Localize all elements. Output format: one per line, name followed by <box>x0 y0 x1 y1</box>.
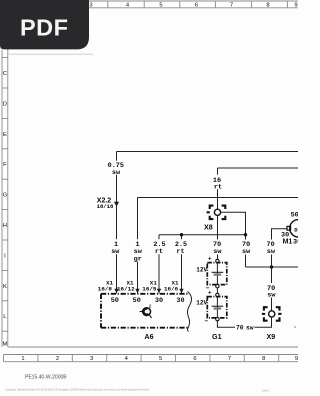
label 1 sw gr <box>133 239 144 263</box>
label X1 16/5 <box>142 280 157 293</box>
svg-text:PDF: PDF <box>20 15 69 41</box>
wire X8 right branch down to battery feed bus <box>221 212 246 267</box>
svg-text:6: 6 <box>193 356 196 362</box>
label 70 sw (ground link) <box>236 325 254 332</box>
svg-text:3: 3 <box>90 356 93 362</box>
svg-text:5: 5 <box>159 356 162 362</box>
ignition switch symbol in A6 <box>140 304 152 318</box>
svg-text:E: E <box>3 132 7 138</box>
svg-text:−: − <box>204 318 208 325</box>
wire G1 minus to X9 (left segment) <box>217 321 235 327</box>
wire 70 sw X8 to G1 plus <box>212 215 222 259</box>
svg-text:sw: sw <box>242 248 251 256</box>
svg-text:rt: rt <box>155 248 163 256</box>
label 2.5 rt (right) <box>175 239 188 256</box>
battery G1 cell 1 minus terminal <box>216 285 219 288</box>
svg-text:rt: rt <box>176 248 184 256</box>
connector arrow X1 16/5 <box>157 289 161 294</box>
wire bus 70 sw to right edge <box>246 266 299 268</box>
svg-text:X8: X8 <box>204 223 213 232</box>
svg-text:9: 9 <box>295 356 298 362</box>
svg-text:PE15.40-W-2000B: PE15.40-W-2000B <box>25 374 67 380</box>
svg-text:I: I <box>4 253 6 259</box>
label X1 16/8 <box>98 280 114 293</box>
wire rt link to feed junction <box>159 234 246 236</box>
svg-text:M1: M1 <box>283 238 293 245</box>
svg-text:G1: G1 <box>212 332 222 341</box>
svg-text:L: L <box>3 314 7 320</box>
PDF badge overlay <box>0 0 89 49</box>
battery G1 cell 1 plus terminal <box>216 259 219 262</box>
label 2.5 rt (left) <box>153 239 166 256</box>
junction dot starter branch <box>270 265 273 268</box>
svg-text:1: 1 <box>21 356 24 362</box>
svg-text:7: 7 <box>230 2 233 8</box>
svg-text:sw: sw <box>267 248 276 256</box>
svg-text:X9: X9 <box>267 332 276 341</box>
control unit A6 box (dash-dot) <box>101 294 188 328</box>
junction dot rt branch <box>180 233 183 236</box>
connector X2.2 pin 18/18 <box>97 198 120 210</box>
svg-text:M: M <box>2 342 7 348</box>
svg-text:7: 7 <box>228 356 231 362</box>
break line A6 right edge <box>187 292 191 332</box>
svg-text:G: G <box>3 193 8 199</box>
svg-text:30: 30 <box>155 297 163 305</box>
starter motor M1 (clipped at sheet edge) <box>287 220 307 237</box>
connector X8 <box>207 206 226 220</box>
svg-text:16/5: 16/5 <box>142 285 157 292</box>
svg-text:30: 30 <box>176 297 184 305</box>
svg-text:70: 70 <box>236 325 244 332</box>
wire bus sw to right edge <box>117 151 299 153</box>
wire 70 sw junction to M1 terminal 30 <box>266 229 288 267</box>
svg-text:gr: gr <box>134 256 142 264</box>
battery G1 cell 1 plates <box>212 263 224 285</box>
svg-text:8: 8 <box>266 2 269 8</box>
svg-text:18/18: 18/18 <box>97 203 114 210</box>
svg-text:sw: sw <box>112 169 121 177</box>
wire 70 sw junction down to X9 <box>266 267 277 311</box>
wire bus sw/gr to right edge <box>138 197 299 199</box>
svg-text:5: 5 <box>159 2 162 8</box>
wire sw vertical from bus to A6 pin X1 16/8 <box>116 152 118 294</box>
svg-text:50: 50 <box>291 211 298 219</box>
connector arrow X1 16/6 <box>179 289 183 294</box>
svg-text:12V: 12V <box>196 266 207 273</box>
battery G1 cell 2 plates <box>212 297 224 318</box>
svg-text:D: D <box>294 226 298 233</box>
label 0.75 sw <box>108 161 124 177</box>
label 1 sw <box>111 239 122 256</box>
wire between battery cells <box>216 288 218 293</box>
svg-text:sw: sw <box>246 325 254 332</box>
connector X9 <box>262 307 282 321</box>
svg-text:2: 2 <box>149 304 152 310</box>
label X1 16/12 <box>117 280 135 293</box>
svg-text:9: 9 <box>294 2 297 8</box>
svg-text:sw: sw <box>267 292 276 300</box>
battery G1 cell 1 box <box>207 263 227 285</box>
svg-text:2: 2 <box>56 356 59 362</box>
svg-text:C: C <box>3 71 7 77</box>
svg-text:Seite 1: Seite 1 <box>262 389 271 393</box>
connector arrow X1 16/8 <box>114 289 118 294</box>
svg-text:50: 50 <box>111 297 119 305</box>
svg-text:30: 30 <box>293 238 298 246</box>
connector arrow X1 16/12 <box>135 289 139 294</box>
wire bus 16 rt to right edge <box>218 167 299 169</box>
svg-text:F: F <box>3 162 7 168</box>
battery G1 cell 2 minus terminal <box>216 317 219 320</box>
svg-text:16/12: 16/12 <box>117 285 135 292</box>
svg-text:16/6: 16/6 <box>164 285 179 292</box>
label X1 16/6 <box>164 280 179 293</box>
svg-text:4: 4 <box>125 356 129 362</box>
svg-text:16/8: 16/8 <box>98 285 113 292</box>
junction dot feed <box>244 233 247 236</box>
svg-text:D: D <box>3 101 7 107</box>
svg-text:6: 6 <box>195 2 198 8</box>
battery G1 cell 2 plus terminal <box>216 293 219 296</box>
battery G1 cell 2 box <box>207 297 227 318</box>
wire sw/gr vertical to A6 pin X1 16/12 <box>137 198 139 294</box>
svg-text:A6: A6 <box>144 332 153 341</box>
label 16 rt <box>213 175 224 192</box>
svg-text:+: + <box>208 291 212 297</box>
svg-text:8: 8 <box>262 356 265 362</box>
wire 16 rt vertical to X8 <box>217 168 219 209</box>
svg-text:K: K <box>3 284 7 290</box>
svg-text:12V: 12V <box>196 300 207 307</box>
svg-text:Copyright DaimlerChrysler AG: Copyright DaimlerChrysler AG 09.05.2005 … <box>5 388 149 392</box>
svg-text:H: H <box>3 223 7 229</box>
svg-text:3: 3 <box>89 2 92 8</box>
wire 2.5 rt vertical to A6 pin X1 16/5 <box>158 235 160 294</box>
wire 2.5 rt vertical to A6 pin X1 16/6 <box>181 235 183 294</box>
svg-text:sw: sw <box>111 248 120 256</box>
svg-text:50: 50 <box>133 297 141 305</box>
svg-text:rt: rt <box>214 184 222 192</box>
svg-text:sw: sw <box>213 248 222 256</box>
wire G1 minus to X9 (right segment) <box>255 317 272 327</box>
label 70 sw (feed drop) <box>241 240 251 257</box>
